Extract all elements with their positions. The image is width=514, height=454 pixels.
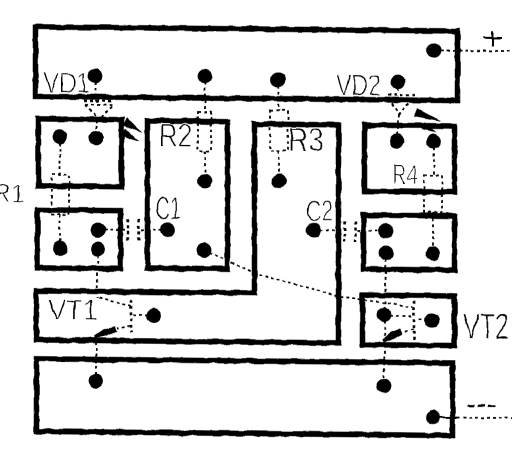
svg-text:R1: R1 (0, 178, 25, 208)
svg-text:C1: C1 (155, 191, 181, 227)
svg-text:VD1: VD1 (43, 67, 90, 99)
svg-text:C2: C2 (306, 195, 333, 228)
svg-text:R3: R3 (288, 121, 324, 158)
svg-text:VD2: VD2 (336, 67, 381, 102)
svg-text:R4: R4 (392, 159, 418, 190)
svg-text:VT1: VT1 (48, 294, 98, 326)
svg-text:R2: R2 (159, 117, 192, 154)
svg-text:VT2: VT2 (463, 306, 509, 347)
